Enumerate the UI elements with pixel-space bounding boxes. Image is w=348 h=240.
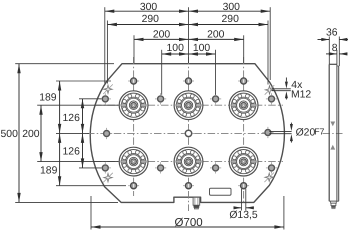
svg-text:126: 126 (63, 147, 81, 158)
svg-text:200: 200 (153, 30, 171, 41)
svg-text:200: 200 (207, 30, 225, 41)
svg-text:Ø13,5: Ø13,5 (229, 210, 258, 221)
svg-text:300: 300 (223, 2, 241, 13)
svg-text:M12: M12 (291, 90, 311, 101)
svg-text:100: 100 (167, 43, 185, 54)
svg-text:200: 200 (22, 129, 40, 140)
svg-text:100: 100 (193, 43, 211, 54)
svg-text:Ø700: Ø700 (175, 217, 203, 229)
svg-text:189: 189 (39, 93, 57, 104)
svg-text:8: 8 (332, 43, 338, 54)
svg-text:F7: F7 (314, 127, 324, 137)
svg-text:189: 189 (40, 166, 58, 177)
svg-text:126: 126 (63, 113, 81, 124)
svg-text:300: 300 (140, 2, 158, 13)
svg-text:36: 36 (326, 28, 338, 39)
svg-text:290: 290 (142, 14, 160, 25)
svg-text:500: 500 (1, 129, 19, 140)
svg-text:290: 290 (222, 14, 240, 25)
svg-text:Ø20: Ø20 (296, 128, 316, 139)
